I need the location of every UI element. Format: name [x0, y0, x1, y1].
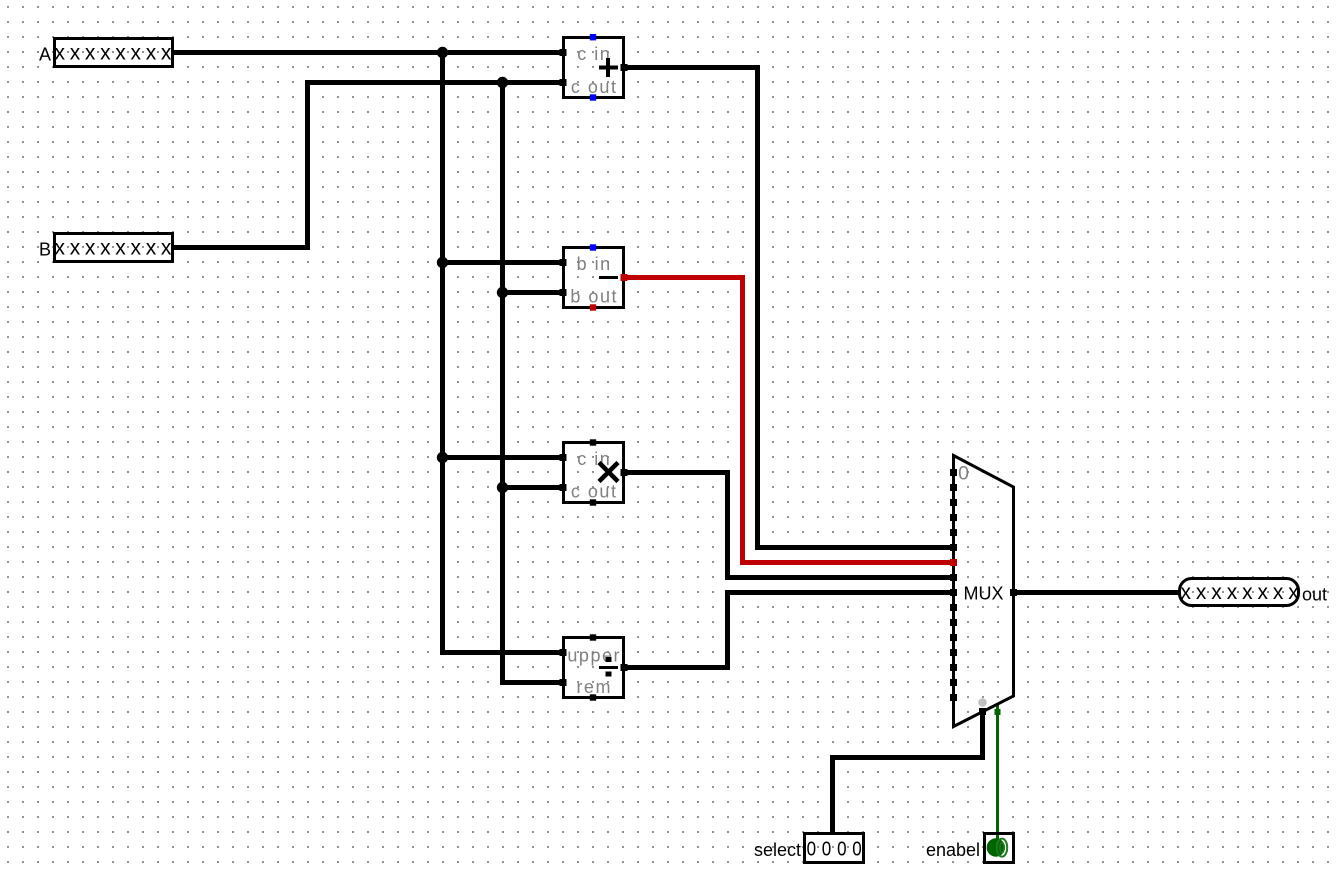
MUX enable pin nub (green): [995, 709, 1001, 715]
wire divider output to MUX: [624, 593, 952, 668]
enable input pin (enabel): [926, 834, 1014, 863]
junction subtractor input 2: [497, 287, 508, 298]
svg-text:xxxxxxxx: xxxxxxxx: [55, 237, 177, 260]
svg-text:0: 0: [807, 837, 816, 860]
svg-text:A: A: [39, 45, 51, 65]
svg-text:enabel: enabel: [926, 840, 980, 860]
wire MUX output to out pin: [1014, 590, 1179, 595]
MUX input pin nubs: [950, 469, 957, 701]
wire vertical bus B taps, ends at divider second input: [503, 83, 564, 683]
junction multiplier input 1: [437, 452, 448, 463]
MUX output pin: [1010, 589, 1017, 596]
svg-text:B: B: [39, 240, 51, 260]
junction A bus tap: [437, 47, 448, 58]
svg-text:xxxxxxxx: xxxxxxxx: [1181, 581, 1304, 604]
svg-text:xxxxxxxx: xxxxxxxx: [55, 42, 177, 65]
divider block: [560, 634, 628, 700]
svg-text:0: 0: [822, 837, 831, 860]
MUX enable marker circle: [978, 698, 987, 707]
subtractor block: [560, 244, 628, 310]
wire subtractor input 2: [503, 290, 564, 295]
svg-text:rem: rem: [576, 677, 612, 697]
svg-text:c in: c in: [577, 449, 611, 469]
wire select to MUX: [833, 709, 983, 833]
svg-text:b in: b in: [577, 254, 612, 274]
svg-text:c out: c out: [571, 77, 618, 97]
MUX red input pin: [950, 559, 957, 566]
wire multiplier output to MUX: [624, 473, 952, 578]
wire B up and to adder second input: [174, 83, 563, 248]
select input pin: [754, 834, 864, 863]
junction multiplier input 2: [497, 482, 508, 493]
svg-text:0: 0: [852, 837, 861, 860]
svg-text:select: select: [754, 840, 801, 860]
wire multiplier input 2: [503, 485, 564, 490]
wire multiplier input 1: [443, 455, 564, 460]
svg-text:0: 0: [958, 463, 969, 485]
svg-text:MUX: MUX: [964, 584, 1004, 604]
MUX select pin nub: [979, 708, 986, 715]
wire vertical bus A taps, ends at divider input: [443, 53, 564, 653]
svg-text:b out: b out: [570, 287, 618, 307]
svg-text:upper: upper: [567, 646, 621, 666]
junction B bus tap: [497, 77, 508, 88]
wire enable to MUX (green): [996, 704, 999, 840]
wire A to adder input: [174, 50, 563, 55]
adder block: [560, 34, 628, 101]
svg-text:c out: c out: [571, 482, 618, 502]
output pin out: [1180, 579, 1328, 606]
multiplier block: [560, 439, 628, 505]
svg-text:out: out: [1302, 585, 1327, 605]
input pin B: [39, 234, 176, 262]
svg-text:0: 0: [837, 837, 846, 860]
junction subtractor input 1: [437, 257, 448, 268]
multiplexer MUX: [950, 456, 1017, 727]
wire subtractor input 1: [443, 260, 564, 265]
input pin A: [39, 39, 176, 67]
wire adder output to MUX: [624, 68, 952, 548]
wire subtractor output to MUX (error red): [624, 278, 952, 563]
